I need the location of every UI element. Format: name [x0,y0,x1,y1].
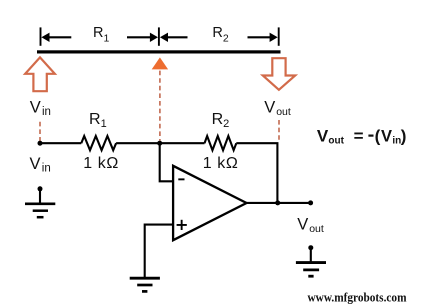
svg-text:=: = [354,126,364,145]
svg-text:in: in [42,163,51,175]
svg-text:V: V [30,99,41,117]
svg-text:): ) [401,126,407,145]
svg-text:1 kΩ: 1 kΩ [203,155,239,172]
svg-text:1 kΩ: 1 kΩ [83,155,119,172]
svg-text:out: out [309,223,324,235]
svg-text:V: V [264,99,275,117]
svg-text:V: V [297,216,308,234]
svg-text:out: out [276,106,291,118]
svg-text:V: V [381,127,392,145]
svg-text:(: ( [375,126,381,145]
svg-text:www.mfgrobots.com: www.mfgrobots.com [308,290,408,304]
svg-text:V: V [30,155,41,173]
svg-text:out: out [328,136,344,147]
svg-text:V: V [317,126,329,145]
svg-text:in: in [42,106,51,118]
